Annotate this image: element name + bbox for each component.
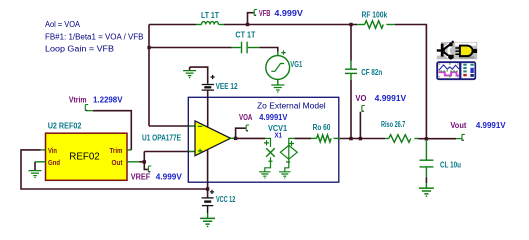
wire VEE to op-amp V+	[207, 90, 209, 127]
flag VO	[362, 106, 365, 113]
wire top feedback rail left	[149, 24, 196, 26]
flag Vtrim	[85, 105, 88, 112]
node junction VFB	[246, 23, 249, 26]
source VG1	[266, 50, 303, 84]
capacitor CF 82n	[345, 25, 382, 81]
ground VCC	[200, 213, 215, 227]
ground REF02	[29, 162, 42, 179]
wire Riso to Vout node	[418, 138, 456, 140]
node junction VCC rail	[206, 187, 209, 190]
svg-text:1.2298V: 1.2298V	[93, 96, 123, 105]
svg-text:4.9991V: 4.9991V	[375, 94, 407, 103]
svg-text:Vout: Vout	[450, 121, 466, 130]
node junction CT	[147, 46, 150, 49]
svg-text:RF 100k: RF 100k	[362, 11, 388, 20]
wire diamond to Ro	[294, 137, 311, 139]
icon probe app	[437, 62, 475, 80]
box Zo External Model	[188, 97, 338, 182]
ground VCVS	[279, 172, 290, 179]
svg-text:Zo External Model: Zo External Model	[257, 101, 326, 111]
wire Out junction	[139, 161, 144, 163]
wire top rail mid	[224, 24, 357, 26]
capacitor CT 1T	[232, 31, 260, 54]
VCVS source diamond	[280, 138, 297, 171]
battery VEE 12	[190, 67, 239, 91]
battery VCC 12	[202, 189, 236, 213]
wire Vtrim green lead	[86, 110, 93, 112]
svg-text:REF02: REF02	[69, 151, 100, 163]
flag VOA stem	[236, 128, 246, 138]
node junction VOA	[234, 137, 237, 140]
wire CF to VO rail	[350, 80, 352, 139]
svg-text:4.999V: 4.999V	[274, 9, 303, 18]
wire VO rail	[340, 138, 386, 140]
svg-text:4.999V: 4.999V	[156, 173, 183, 182]
wire op-amp inverting input	[149, 125, 190, 127]
svg-text:CF 82n: CF 82n	[361, 68, 382, 77]
wire Vout green lead	[456, 138, 462, 140]
svg-text:Out: Out	[112, 158, 123, 167]
wire CT to VG1	[259, 48, 278, 52]
svg-text:Loop Gain = VFB: Loop Gain = VFB	[45, 45, 114, 54]
ground VEE	[183, 67, 196, 78]
wire VFB flag stem	[248, 13, 254, 25]
svg-text:Vin: Vin	[48, 146, 57, 155]
svg-text:Gnd: Gnd	[48, 158, 60, 167]
wire Trim to Vtrim flag	[93, 111, 131, 150]
node junction VO flag	[359, 137, 362, 140]
svg-text:VCC 12: VCC 12	[216, 195, 236, 204]
node junction RF/CF	[349, 23, 352, 26]
capacitor CL 10u	[420, 141, 462, 177]
flag VOA	[246, 125, 249, 132]
VCVS input port X1	[264, 138, 275, 171]
svg-text:VG1: VG1	[290, 60, 303, 69]
svg-text:U2 REF02: U2 REF02	[48, 121, 82, 130]
svg-text:VO: VO	[355, 94, 366, 103]
component REF02 U2	[35, 121, 139, 180]
wire op-amp V- to VCC	[207, 150, 209, 190]
inductor LT 1T	[196, 11, 224, 25]
flag VREF	[144, 163, 151, 173]
ground CL	[419, 183, 434, 197]
resistor Riso 26.7	[381, 120, 418, 142]
svg-text:Riso 26.7: Riso 26.7	[381, 120, 405, 129]
node junction CF bottom	[349, 137, 352, 140]
resistor Ro 60	[311, 123, 340, 142]
svg-text:CT 1T: CT 1T	[235, 31, 255, 40]
svg-text:4.9991V: 4.9991V	[476, 121, 506, 130]
wire op-amp output	[236, 137, 265, 139]
wire op-amp non-inverting input	[144, 152, 189, 163]
flag VFB	[254, 10, 257, 17]
wire RF to output corner	[395, 25, 427, 139]
svg-text:VEE 12: VEE 12	[216, 82, 239, 91]
op-amp U1 OPA177E	[142, 121, 236, 156]
resistor RF 100k	[357, 11, 395, 29]
wire Vin loop to VCC rail	[21, 150, 208, 189]
svg-text:Vtrim: Vtrim	[69, 96, 87, 105]
svg-text:VOA: VOA	[239, 113, 253, 122]
wire CT branch	[149, 47, 232, 49]
svg-text:LT 1T: LT 1T	[201, 11, 219, 20]
node junction VREF	[143, 160, 146, 163]
icon schematics app	[437, 41, 477, 60]
svg-text:Ro 60: Ro 60	[313, 123, 331, 132]
svg-text:X1: X1	[275, 131, 283, 140]
ground VG1	[271, 85, 284, 93]
svg-text:4.9991V: 4.9991V	[259, 113, 288, 122]
svg-text:CL 10u: CL 10u	[440, 161, 461, 170]
svg-text:Aol = VOA: Aol = VOA	[45, 20, 81, 29]
svg-text:FB#1: 1/Beta1 = VOA / VFB: FB#1: 1/Beta1 = VOA / VFB	[45, 33, 144, 42]
flag VO stem	[359, 112, 361, 139]
wire CL to ground	[425, 177, 427, 183]
svg-text:U1 OPA177E: U1 OPA177E	[142, 134, 181, 143]
flag Vout	[462, 134, 465, 141]
svg-text:VREF: VREF	[131, 173, 151, 182]
svg-text:Trim: Trim	[110, 146, 123, 155]
svg-text:VFB: VFB	[259, 9, 271, 18]
ground X1 input	[259, 172, 270, 179]
wire vertical feedback	[148, 25, 150, 127]
node junction Vout	[425, 137, 428, 140]
